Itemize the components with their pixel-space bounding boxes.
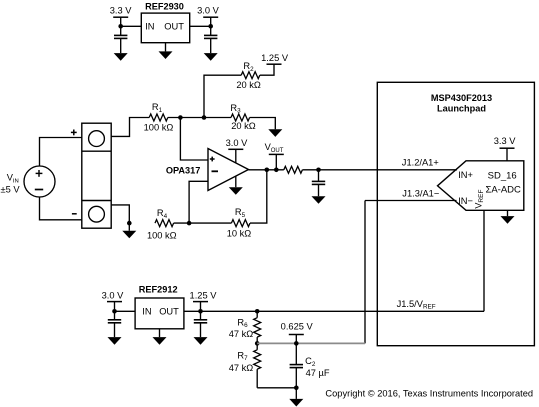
ground bbox=[204, 53, 218, 61]
ground bbox=[312, 196, 326, 204]
svg-text:47 µF: 47 µF bbox=[306, 368, 330, 378]
junction VOUT bbox=[274, 168, 279, 173]
wire R7 bottom to C2 bottom bbox=[257, 387, 296, 389]
svg-text:IN−: IN− bbox=[458, 196, 473, 206]
wire node B up to R2 bbox=[204, 75, 241, 117]
wire R4 to R5 bbox=[174, 222, 232, 224]
wire node A to op-amp +input bbox=[180, 118, 208, 161]
voltage reference U3 REF2912 bbox=[135, 298, 184, 329]
wire ADC IN- input bbox=[365, 200, 457, 202]
ground under REF2912 bbox=[159, 329, 161, 337]
wire connector+ to R1 bbox=[111, 118, 149, 137]
svg-text:47 kΩ: 47 kΩ bbox=[229, 363, 254, 373]
junction at REF2930 output bbox=[208, 24, 213, 29]
junction filter cap bbox=[316, 168, 321, 173]
resistor R3 20 kOhm bbox=[231, 114, 250, 121]
junction node A (op-amp + branch) bbox=[178, 115, 183, 120]
svg-text:1.25 V: 1.25 V bbox=[190, 291, 218, 301]
voltage source VIN ±5 V bbox=[24, 166, 55, 197]
svg-text:J1.3/A1−: J1.3/A1− bbox=[402, 188, 439, 198]
svg-text:SD_16: SD_16 bbox=[488, 170, 517, 181]
svg-text:IN+: IN+ bbox=[458, 170, 473, 180]
svg-text:IN: IN bbox=[145, 22, 154, 32]
svg-text:OUT: OUT bbox=[164, 22, 184, 32]
svg-text:REF2912: REF2912 bbox=[139, 285, 178, 295]
ground under ADC bbox=[507, 210, 509, 216]
resistor R6 47 kOhm bbox=[256, 311, 258, 317]
ground bbox=[268, 129, 282, 137]
svg-text:47 kΩ: 47 kΩ bbox=[229, 329, 254, 339]
wire connector- down to R4 node bbox=[111, 205, 129, 223]
resistor R4 100 kOhm bbox=[155, 220, 174, 227]
svg-text:0.625 V: 0.625 V bbox=[281, 322, 314, 332]
resistor R7 47 kOhm bbox=[256, 343, 258, 349]
junction 0.625V node bbox=[255, 341, 260, 346]
svg-text:MSP430F2013: MSP430F2013 bbox=[431, 93, 492, 103]
junction REF2912 input bbox=[112, 309, 117, 314]
voltage reference U2 REF2930 bbox=[141, 13, 189, 43]
svg-text:20 kΩ: 20 kΩ bbox=[231, 121, 256, 131]
capacitor (input bypass, REF2912) bbox=[114, 311, 116, 320]
junction node B (R2 branch) bbox=[202, 115, 207, 120]
svg-text:20 kΩ: 20 kΩ bbox=[236, 80, 261, 90]
wire VIN- to connector bbox=[40, 197, 82, 220]
capacitor C2 47 uF bbox=[295, 343, 297, 364]
svg-text:±5 V: ±5 V bbox=[1, 185, 21, 195]
ground bbox=[114, 53, 128, 61]
resistor R1 100 kOhm bbox=[149, 114, 168, 121]
wire REF2930 OUT to 3.0V node bbox=[190, 25, 211, 27]
junction at C2 top bbox=[294, 341, 299, 346]
svg-text:IN: IN bbox=[142, 307, 151, 317]
svg-text:OPA317: OPA317 bbox=[166, 166, 201, 176]
ground under REF2930 bbox=[165, 43, 167, 52]
junction R6 top bbox=[255, 309, 260, 314]
svg-text:10 kΩ: 10 kΩ bbox=[227, 228, 252, 238]
wire to ADC IN+ bbox=[302, 169, 457, 171]
wire 0.625V node to ADC IN- feedback (gray) bbox=[257, 342, 365, 344]
capacitor (output bypass, REF2912) bbox=[200, 311, 202, 320]
svg-text:J1.2/A1+: J1.2/A1+ bbox=[402, 157, 439, 167]
capacitor (output bypass, REF2930) bbox=[210, 26, 212, 35]
wire VIN+ to connector bbox=[40, 138, 82, 167]
junction C2 bottom / ground bbox=[294, 386, 299, 391]
svg-text:OUT: OUT bbox=[159, 307, 179, 317]
ground bbox=[295, 388, 297, 399]
svg-text:3.3 V: 3.3 V bbox=[494, 136, 517, 146]
svg-text:3.3 V: 3.3 V bbox=[110, 6, 133, 16]
wire R2 to 1.25V node bbox=[260, 64, 274, 75]
resistor R5 10 kOhm bbox=[231, 220, 250, 227]
ADC SD_16 Sigma-Delta (pentagon) bbox=[438, 161, 524, 211]
resistor R2 20 kOhm bbox=[241, 72, 260, 79]
junction at R4/R5 node bbox=[187, 221, 192, 226]
wire feedback from 0.625V node up bbox=[364, 201, 366, 344]
svg-text:3.0 V: 3.0 V bbox=[226, 138, 249, 148]
wire op-amp output bbox=[249, 169, 284, 171]
capacitor C1 (RC filter) bbox=[318, 170, 320, 182]
junction at R4 left / ground bbox=[127, 221, 132, 226]
svg-text:3.0 V: 3.0 V bbox=[197, 6, 220, 16]
svg-text:1.25 V: 1.25 V bbox=[261, 53, 289, 63]
wire R3 to ground bbox=[250, 118, 276, 130]
label + terminal bbox=[71, 131, 77, 133]
junction at REF2930 input bbox=[118, 24, 123, 29]
svg-text:100 kΩ: 100 kΩ bbox=[147, 230, 177, 240]
wire R5 to output node bbox=[250, 170, 267, 223]
label - terminal bbox=[72, 213, 77, 215]
connector J1 (2-terminal input) bbox=[82, 123, 111, 228]
wire VREF pin down bbox=[483, 210, 485, 311]
node VOUT terminal bbox=[269, 153, 284, 155]
svg-text:100 kΩ: 100 kΩ bbox=[144, 122, 174, 132]
svg-text:Copyright © 2016, Texas Instru: Copyright © 2016, Texas Instruments Inco… bbox=[325, 389, 533, 399]
wire op-amp -input to feedback node bbox=[189, 181, 208, 223]
wire REF2912 OUT to J1.5/VREF (1.25V rail) bbox=[184, 310, 484, 312]
block MSP430F2013 Launchpad bbox=[377, 82, 534, 345]
svg-text:REF2930: REF2930 bbox=[145, 1, 184, 11]
capacitor (input bypass, REF2930) bbox=[120, 26, 122, 35]
wire 3.3V to REF2930 IN bbox=[121, 25, 142, 27]
junction feedback bbox=[265, 168, 270, 173]
svg-text:3.0 V: 3.0 V bbox=[102, 291, 125, 301]
ground bbox=[108, 337, 122, 345]
node 1.25 V terminal bbox=[267, 63, 282, 65]
ground op-amp bbox=[235, 176, 237, 187]
ground bbox=[194, 337, 208, 345]
op-amp U1 OPA317 bbox=[208, 149, 249, 191]
ground bbox=[128, 223, 130, 231]
svg-text:ΣA-ADC: ΣA-ADC bbox=[485, 184, 521, 195]
wire R1 to R3 bbox=[168, 117, 231, 119]
resistor (RC filter, unlabeled) bbox=[284, 166, 303, 173]
wire to REF2912 IN bbox=[115, 310, 136, 312]
junction 1.25V bypass bbox=[198, 309, 203, 314]
svg-text:Launchpad: Launchpad bbox=[437, 103, 486, 113]
